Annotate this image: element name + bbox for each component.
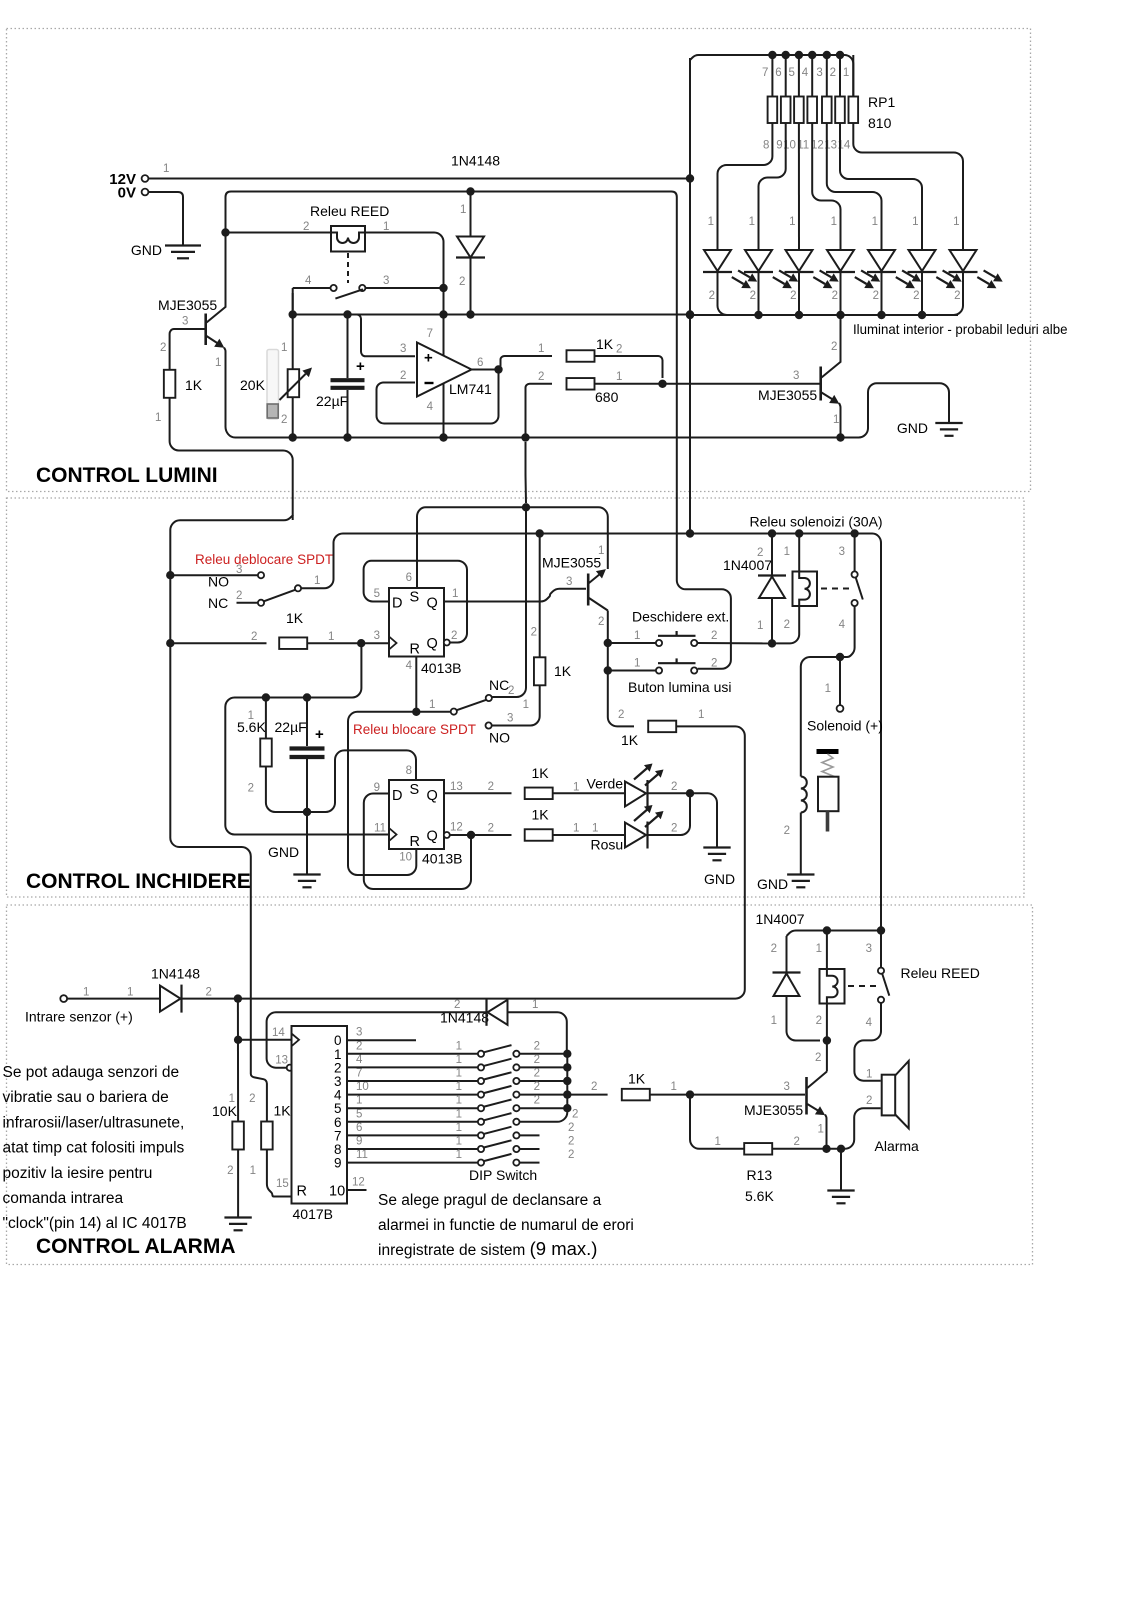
wire relay bus y=533.5	[534, 534, 881, 931]
svg-text:4017B: 4017B	[293, 1206, 333, 1222]
wire carry stub of U4	[347, 1189, 367, 1191]
pin 3 of deblocare	[236, 564, 242, 576]
svg-text:680: 680	[595, 389, 619, 405]
lever of DIP row 9	[484, 1154, 511, 1161]
svg-text:2: 2	[248, 783, 254, 795]
wire D3 bottom	[771, 598, 773, 643]
wire RP1 top bus	[690, 55, 853, 96]
resistor R3 680	[567, 378, 595, 390]
transistor Q2 MJE3055 body	[821, 362, 841, 404]
wire DIP row 3 to bus	[520, 1080, 568, 1082]
wire DIP row 8 stub	[520, 1148, 540, 1150]
svg-text:2: 2	[534, 1068, 540, 1080]
svg-text:1N4148: 1N4148	[440, 1010, 489, 1026]
pin 2 of LED1	[709, 290, 715, 302]
svg-text:Alarma: Alarma	[875, 1138, 920, 1154]
svg-text:1: 1	[912, 216, 918, 228]
svg-text:2: 2	[227, 1165, 233, 1177]
wire 5.6K top	[265, 698, 267, 739]
light arrows of LED4	[855, 270, 880, 288]
svg-text:3: 3	[356, 1027, 362, 1039]
pin 1 of Deschidere	[634, 630, 640, 642]
junction sensor line at 10K	[234, 994, 242, 1002]
pin 1 of LED3	[789, 216, 795, 228]
bubble on U2 Qbar	[444, 640, 450, 646]
contact 2 of DIP row 5	[513, 1105, 519, 1111]
svg-text:5.6K: 5.6K	[237, 719, 266, 735]
ground GND of RC network	[293, 875, 320, 888]
lever of DIP row 5	[484, 1100, 511, 1107]
pin 1 of D1	[460, 204, 466, 216]
value 5.6K	[237, 719, 266, 735]
svg-text:1: 1	[250, 1165, 256, 1177]
wire 1K to clock pin3	[308, 642, 390, 644]
pin name 9 of U4	[334, 1156, 342, 1171]
svg-text:S: S	[410, 782, 420, 798]
LED5 of interior lighting	[867, 250, 896, 272]
pin 1 of DIP row 2	[456, 1054, 462, 1066]
pin name Qbar of U3	[427, 829, 438, 845]
pin 4 of RP1	[802, 67, 809, 79]
pin 1 of D6	[771, 1015, 777, 1027]
junction rail at pot	[289, 310, 297, 318]
pin 2 of base 1K	[591, 1081, 597, 1093]
wire sensor to diode	[67, 998, 159, 1000]
pin 2 of deblocare	[236, 590, 242, 602]
svg-text:R13: R13	[747, 1167, 773, 1183]
wire clock node down to RC	[225, 643, 389, 834]
svg-text:2: 2	[598, 616, 604, 628]
pin 1 of door 1K	[698, 709, 704, 721]
pin name R of U2	[410, 642, 420, 658]
pin 4 of U1	[427, 401, 434, 413]
wire R1 bottom to section 2	[170, 398, 293, 520]
pin 4 of U4 output 2	[356, 1054, 363, 1066]
speaker Alarma symbol	[882, 1061, 909, 1129]
contact 3 of solenoid relay	[852, 571, 858, 577]
value 1K of Verde resistor	[532, 765, 550, 781]
wire 1K to Q4 base	[650, 1094, 805, 1096]
pin 1 of base 1K	[671, 1081, 677, 1093]
svg-text:5: 5	[374, 588, 380, 600]
pin 1 of R13	[715, 1136, 721, 1148]
pin name 10 of U4	[329, 1184, 345, 1200]
junction op-amp output node	[494, 365, 502, 373]
IC U2 4013B box	[389, 588, 444, 657]
svg-text:"clock"(pin 14) al IC 4017B: "clock"(pin 14) al IC 4017B	[3, 1215, 187, 1232]
lever of solenoid relay	[856, 578, 863, 600]
wire alarm GND drop	[840, 1149, 842, 1190]
svg-text:LM741: LM741	[449, 381, 492, 397]
junction solenoid feed node	[836, 653, 844, 661]
pin 11 of U3	[374, 823, 386, 835]
resistor pack RP1 element 7	[849, 97, 859, 124]
svg-text:1: 1	[634, 658, 640, 670]
pin 1 of 10K	[229, 1093, 235, 1105]
pin 4 of U2	[406, 660, 413, 672]
pushbutton bar of Deschidere	[658, 631, 696, 636]
label 0V	[118, 185, 136, 202]
resistor 1K Verde	[525, 788, 553, 800]
pin 3 of blocare	[507, 713, 513, 725]
junction left rail at NO wire	[166, 571, 174, 579]
pin 2 of 1K blocare	[531, 627, 537, 639]
pin 1 of LED2	[749, 216, 755, 228]
svg-text:1K: 1K	[185, 377, 203, 393]
pin 1 of 5.6K	[248, 710, 254, 722]
svg-text:3: 3	[236, 564, 242, 576]
svg-text:4: 4	[866, 1017, 873, 1029]
contact 1 of DIP row 6	[478, 1119, 484, 1125]
svg-text:22µF: 22µF	[275, 719, 307, 735]
light arrows of LED Verde	[634, 764, 664, 786]
pin 4 of solenoid contact	[839, 619, 846, 631]
svg-text:MJE3055: MJE3055	[158, 297, 217, 313]
lever of DIP row 8	[484, 1140, 511, 1147]
svg-text:2: 2	[534, 1054, 540, 1066]
contact 2 of Buton	[691, 667, 697, 673]
pin 1 of D3	[757, 620, 763, 632]
wire rail to GND2	[841, 383, 950, 437]
contact common of deblocare	[295, 585, 301, 591]
svg-text:1: 1	[592, 823, 598, 835]
svg-text:1: 1	[843, 67, 849, 79]
junction LED cathode node	[686, 789, 694, 797]
svg-text:6: 6	[477, 357, 483, 369]
svg-text:1: 1	[715, 1136, 721, 1148]
pin 3 of U4 output 0	[356, 1027, 362, 1039]
wire REED coil pin1 to switch node	[365, 233, 444, 289]
wire D6 bottom	[787, 996, 821, 1041]
svg-text:22µF: 22µF	[316, 393, 348, 409]
pin 2 of DIP row 7	[568, 1122, 574, 1134]
svg-text:CONTROL LUMINI: CONTROL LUMINI	[36, 464, 218, 487]
wire U4 output 4 to DIP	[347, 1094, 478, 1096]
svg-text:11: 11	[374, 823, 386, 835]
contact 2 of DIP row 9	[513, 1160, 519, 1166]
wire RP1 pin10 to LED3	[798, 123, 800, 250]
wire DIP row 6 to bus end	[520, 1108, 568, 1122]
junction top bus at RP1 pin 5	[795, 51, 803, 59]
pin 1 of solenoid coil	[784, 546, 790, 558]
contact 2 of DIP row 8	[513, 1146, 519, 1152]
svg-text:2: 2	[709, 290, 715, 302]
pin 1 of Rosu resistor 1	[573, 823, 579, 835]
pin 1 of D5	[532, 999, 538, 1011]
wire door 1K to section 3	[676, 726, 744, 998]
diode D6 1N4007	[773, 973, 801, 997]
wire alarm relay rail	[787, 931, 882, 937]
pin name 2 of U4	[334, 1060, 342, 1075]
wire Q1 collector	[225, 234, 227, 307]
wire U2 R pin4 down	[415, 657, 417, 712]
value 22uF of C1	[316, 393, 348, 409]
svg-text:2: 2	[913, 290, 919, 302]
pin 2 of D1	[459, 276, 465, 288]
svg-text:1: 1	[456, 1095, 462, 1107]
pin 2 of Rosu LED	[671, 823, 677, 835]
pin 2 of LED3	[790, 290, 796, 302]
junction DIP bus row 4	[563, 1090, 571, 1098]
svg-text:7: 7	[427, 328, 433, 340]
value 5.6K of R13	[745, 1188, 774, 1204]
ground GND right of Q2	[935, 423, 962, 436]
contact 2 of DIP row 1	[513, 1051, 519, 1057]
svg-text:1: 1	[749, 216, 755, 228]
wire LED bottom bus	[690, 314, 958, 316]
svg-text:+: +	[315, 726, 324, 743]
pin 2 of DIP row 6	[572, 1108, 578, 1120]
contact 1 of Deschidere	[656, 640, 662, 646]
lever of REED switch	[335, 289, 363, 298]
junction DIP bus row 3	[563, 1077, 571, 1085]
wire S2 path	[307, 750, 416, 812]
wire U2 S input	[417, 507, 520, 588]
solenoid actuator symbol	[817, 752, 839, 832]
pin 2 of R2	[616, 344, 622, 356]
wire common loop to R2 pin10	[348, 712, 416, 875]
junction GND node alarm	[837, 1145, 845, 1153]
lever of DIP row 3	[484, 1072, 511, 1079]
svg-text:2: 2	[206, 987, 212, 999]
resistor 1K Rosu	[525, 829, 553, 841]
svg-text:CONTROL ALARMA: CONTROL ALARMA	[36, 1235, 235, 1258]
wire U4 output 9 to DIP	[347, 1162, 478, 1164]
contact 3 of REED switch	[359, 285, 365, 291]
wire LED7 cathode to bus	[922, 272, 963, 315]
junction bus at diode D3	[768, 529, 776, 537]
wire Buton left	[608, 670, 656, 672]
border box CONTROL INCHIDERE	[7, 498, 1025, 897]
svg-text:4013B: 4013B	[421, 660, 461, 676]
svg-text:1: 1	[616, 371, 622, 383]
svg-text:R: R	[297, 1184, 307, 1200]
svg-text:infrarosii/laser/ultrasunete,: infrarosii/laser/ultrasunete,	[3, 1114, 185, 1131]
pin 1 of 12V wire	[163, 163, 169, 175]
pin 3 of Q1	[182, 316, 188, 328]
pin 2 subscript of blocare NC	[508, 685, 514, 697]
note Iluminat interior	[853, 321, 1068, 337]
dashed actuator of alarm relay	[848, 985, 876, 987]
junction rail at coil 1	[823, 926, 831, 934]
resistor pack RP1 element 3	[794, 97, 804, 124]
pin 2 of U2	[451, 630, 457, 642]
wire D5 to DIP bus	[508, 1012, 567, 1050]
svg-text:13: 13	[450, 781, 463, 793]
wire 5.6K bottom	[266, 767, 307, 813]
diode D1 1N4148	[456, 237, 485, 258]
pin 1 of Q3	[598, 545, 604, 557]
wire clock to 4017B pin14	[238, 1039, 291, 1041]
pin name R of U3	[410, 834, 420, 850]
svg-text:2: 2	[757, 547, 763, 559]
pin 6 of RP1	[775, 67, 781, 79]
wire Verde resistor to LED	[553, 792, 626, 794]
pin 1 of LED5	[872, 216, 878, 228]
svg-text:MJE3055: MJE3055	[542, 555, 601, 571]
contact 2 of DIP row 6	[513, 1119, 519, 1125]
pin 1 of R3	[616, 371, 622, 383]
pin 3 of U1	[400, 343, 406, 355]
svg-text:1: 1	[456, 1081, 462, 1093]
wire common to contact	[416, 711, 450, 713]
junction rail at Q2 emitter	[836, 433, 844, 441]
contact common of blocare	[451, 709, 457, 715]
pin 2 of DIP row 8	[568, 1136, 574, 1148]
svg-text:MJE3055: MJE3055	[744, 1102, 803, 1118]
contact 1 of DIP row 3	[478, 1078, 484, 1084]
resistor 1K blocare	[534, 657, 546, 685]
wire Rosu cathode up to node	[648, 793, 691, 835]
pin 1 of speaker	[866, 1069, 872, 1081]
svg-text:2: 2	[534, 1040, 540, 1052]
pin 2 of Verde LED	[671, 781, 677, 793]
svg-text:0V: 0V	[118, 185, 136, 202]
op-amp U1 LM741 triangle	[417, 343, 472, 397]
svg-text:Intrare senzor (+): Intrare senzor (+)	[25, 1009, 133, 1025]
svg-text:1: 1	[866, 1069, 872, 1081]
wire LED5 cathode	[881, 272, 883, 315]
wire NO to 1K blocare	[492, 686, 540, 726]
border box CONTROL ALARMA	[7, 905, 1033, 1265]
IC U2 label 4013B	[421, 660, 461, 676]
wire DIP row 4 to bus	[520, 1094, 568, 1096]
relay label Releu REED alarm	[901, 965, 980, 981]
svg-text:3: 3	[566, 576, 572, 588]
pin 1 of Q4	[818, 1124, 824, 1136]
LED1 of interior lighting	[703, 250, 732, 272]
wire C2 bottom to GND	[306, 759, 308, 874]
wire deblocare NO	[170, 574, 257, 576]
svg-text:20K: 20K	[240, 377, 266, 393]
svg-text:1: 1	[163, 163, 169, 175]
note sensor text line 5	[3, 1165, 153, 1182]
wire DIP row 9 stub	[520, 1162, 540, 1164]
note threshold line 2	[378, 1217, 634, 1234]
svg-text:Releu blocare SPDT: Releu blocare SPDT	[353, 722, 476, 737]
pin 1 of 1K blocare	[523, 699, 529, 711]
pin 11 of RP1	[797, 140, 809, 152]
wire U4 output 6 to DIP	[347, 1121, 478, 1123]
wire U3 Qbar to resistor	[450, 834, 512, 836]
DIP bus vertical	[566, 1054, 568, 1108]
wire node to coil drive	[801, 657, 845, 777]
value 810 of RP1	[868, 115, 892, 131]
pin name 7 of U4	[334, 1128, 342, 1143]
svg-text:14: 14	[272, 1027, 285, 1039]
junction R2/R3 node	[658, 380, 666, 388]
arrow of 20K pot	[280, 368, 313, 401]
ground GND of indicator LEDs	[703, 848, 730, 861]
diode D4 1N4148	[160, 985, 182, 1013]
pin 6 of U2	[406, 572, 412, 584]
wire U3 Q to Verde resistor	[444, 792, 512, 794]
wire positive rail y=314.5	[293, 314, 690, 316]
svg-text:2: 2	[356, 1040, 362, 1052]
junction left rail at 1K clock wire	[166, 639, 174, 647]
svg-text:9: 9	[776, 140, 782, 152]
wire DIP row 7 stub	[520, 1134, 540, 1136]
svg-text:2: 2	[671, 823, 677, 835]
svg-text:7: 7	[356, 1068, 362, 1080]
svg-text:2: 2	[711, 658, 717, 670]
wire base drive to Q2	[595, 383, 820, 385]
wire U4 output 0 stub	[347, 1039, 416, 1041]
svg-text:2: 2	[400, 370, 406, 382]
pin 1 of blocare	[429, 699, 435, 711]
section title CONTROL INCHIDERE	[26, 870, 251, 893]
pin name 8 of U4	[334, 1142, 342, 1157]
svg-text:1K: 1K	[286, 610, 304, 626]
terminal Intrare senzor	[60, 995, 67, 1002]
wire RP1 element 4 top	[811, 55, 813, 97]
svg-text:Solenoid (+): Solenoid (+)	[807, 718, 883, 734]
label Solenoid (+)	[807, 718, 883, 734]
pin 2 of clock 1K	[251, 631, 257, 643]
svg-text:R: R	[410, 642, 420, 658]
svg-text:2: 2	[815, 1052, 821, 1064]
pin 3 of alarm contact	[866, 943, 872, 955]
pin name D of U3	[392, 788, 402, 804]
label Intrare senzor (+)	[25, 1009, 133, 1025]
note sensor text line 7	[3, 1215, 187, 1232]
svg-text:1: 1	[429, 699, 435, 711]
wire RP1 element 3 top	[798, 55, 800, 97]
svg-text:S: S	[410, 590, 420, 606]
svg-text:3: 3	[507, 713, 513, 725]
resistor 1K door-light	[648, 721, 676, 733]
junction top bus at RP1 pin 7	[768, 51, 776, 59]
relay coil box of alarm REED	[820, 969, 845, 1004]
svg-text:3: 3	[383, 275, 389, 287]
svg-text:Iluminat interior - probabil l: Iluminat interior - probabil leduri albe	[853, 321, 1068, 337]
wire 0V to GND	[149, 192, 184, 246]
wire LED6 cathode	[921, 272, 923, 315]
wire LED3 cathode	[798, 272, 800, 315]
label Alarma	[875, 1138, 920, 1154]
pin 12 of U3	[450, 822, 463, 834]
wire Verde cathode to node	[648, 792, 691, 794]
value 1K of alarm base	[628, 1071, 646, 1087]
svg-text:1K: 1K	[628, 1071, 646, 1087]
wire contact 3	[854, 534, 856, 572]
wire pot bottom	[292, 398, 294, 438]
lever of alarm relay	[882, 974, 889, 996]
transistor Q3 label MJE3055	[542, 555, 601, 571]
svg-text:3: 3	[400, 343, 406, 355]
label NO of deblocare	[208, 574, 229, 590]
svg-text:1: 1	[328, 631, 334, 643]
wire 0V rail to section 2	[226, 192, 731, 669]
clock triangle of U2	[389, 637, 397, 650]
terminal 12V	[142, 175, 149, 182]
LED4 of interior lighting	[826, 250, 855, 272]
svg-text:11: 11	[356, 1149, 368, 1161]
svg-text:1: 1	[789, 216, 795, 228]
pin 2 of Deschidere	[711, 630, 717, 642]
potentiometer 20K body	[288, 369, 300, 397]
svg-text:2: 2	[771, 943, 777, 955]
pin name 3 of U4	[334, 1074, 342, 1089]
polarity + of C2	[315, 726, 324, 743]
diode D3 1N4007	[758, 576, 786, 599]
svg-text:1: 1	[383, 221, 389, 233]
contact 1 of DIP row 2	[478, 1064, 484, 1070]
IC U4 4017B box	[292, 1026, 348, 1204]
svg-text:3: 3	[784, 1081, 790, 1093]
wire Q1 base	[170, 329, 205, 370]
capacitor C2 22uF plates	[290, 749, 325, 758]
